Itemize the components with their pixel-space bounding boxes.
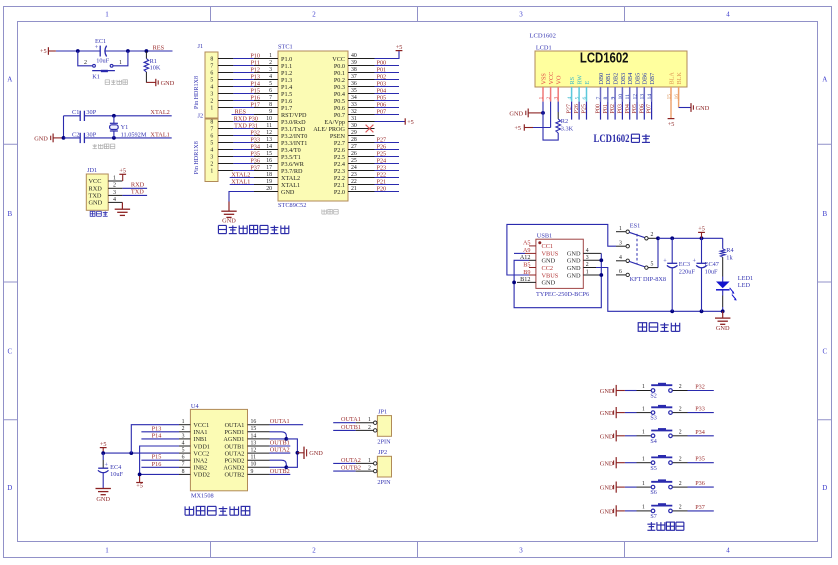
- svg-text:RS: RS: [569, 76, 576, 84]
- svg-text:Pin HDR1X8: Pin HDR1X8: [194, 141, 200, 174]
- svg-text:TXD: TXD: [89, 193, 102, 200]
- svg-text:EC1: EC1: [95, 38, 106, 45]
- svg-text:18: 18: [266, 172, 272, 178]
- svg-text:C2: C2: [72, 131, 79, 138]
- wire/net P36: [233, 157, 260, 164]
- wire TXD: [122, 189, 147, 196]
- usb right stubs: [583, 248, 601, 276]
- wire crystal left: [62, 116, 66, 140]
- svg-text:1: 1: [619, 226, 622, 232]
- svg-text:VCC: VCC: [548, 72, 555, 85]
- svg-text:AGND2: AGND2: [223, 465, 244, 472]
- svg-text:2: 2: [182, 426, 185, 432]
- svg-text:P3.4/T0: P3.4/T0: [281, 147, 301, 154]
- svg-text:P0.5: P0.5: [334, 98, 345, 105]
- svg-text:P25: P25: [582, 104, 588, 113]
- svg-text:GND: GND: [600, 388, 614, 395]
- svg-text:P3.5/T1: P3.5/T1: [281, 154, 301, 161]
- svg-text:3: 3: [519, 11, 523, 19]
- svg-text:XTAL1: XTAL1: [281, 182, 300, 189]
- svg-text:GND: GND: [696, 105, 710, 112]
- wire RXD: [122, 182, 147, 189]
- wire/net P05: [375, 94, 400, 101]
- svg-text:3: 3: [269, 67, 272, 73]
- svg-text:USB1: USB1: [537, 232, 552, 239]
- svg-text:P0.0: P0.0: [334, 63, 345, 70]
- svg-text:2: 2: [312, 11, 316, 19]
- svg-text:CC1: CC1: [542, 243, 554, 250]
- svg-text:EC47: EC47: [705, 261, 719, 268]
- svg-text:P2.2: P2.2: [334, 175, 345, 182]
- wire/net P01: [375, 66, 400, 73]
- wire gnd-S3: [625, 412, 637, 414]
- svg-text:26: 26: [351, 151, 357, 157]
- svg-text:3: 3: [619, 240, 622, 246]
- svg-text:P0.1: P0.1: [334, 70, 345, 77]
- ground (EC4): [96, 488, 111, 503]
- usb pin names right: [567, 251, 581, 280]
- svg-text:TXD P31: TXD P31: [234, 122, 258, 129]
- svg-text:DB7: DB7: [649, 73, 656, 85]
- wire/net P07: [375, 108, 400, 115]
- svg-text:P03: P03: [618, 104, 624, 113]
- svg-text:KFT DIP-8X8: KFT DIP-8X8: [630, 276, 666, 283]
- svg-text:OUTB1: OUTB1: [341, 424, 361, 431]
- wire gnd-S5: [625, 462, 637, 464]
- svg-text:GND: GND: [222, 217, 236, 224]
- svg-text:GND: GND: [281, 189, 295, 196]
- svg-text:VBUS: VBUS: [542, 272, 559, 279]
- svg-text:15: 15: [251, 426, 257, 432]
- svg-text:2PIN: 2PIN: [377, 439, 391, 446]
- svg-text:XTAL2: XTAL2: [150, 109, 169, 116]
- svg-text:1: 1: [368, 417, 371, 423]
- wire usb pin2 to gnd rail: [596, 268, 723, 314]
- svg-text:EA/Vpp: EA/Vpp: [324, 119, 345, 126]
- svg-text:J1: J1: [198, 43, 204, 50]
- svg-text:RST/VPD: RST/VPD: [281, 112, 307, 119]
- svg-text:11: 11: [625, 94, 631, 100]
- svg-text:40: 40: [351, 53, 357, 59]
- connector J1: [194, 43, 234, 118]
- svg-text:220uF: 220uF: [679, 268, 696, 275]
- power +5 (u4 vcc): [100, 441, 107, 453]
- svg-text:MX1508: MX1508: [191, 493, 214, 500]
- svg-text:P0.6: P0.6: [334, 105, 345, 112]
- svg-text:1: 1: [642, 430, 645, 436]
- switch S3: [637, 405, 688, 422]
- usb connector USB1 box: [536, 232, 583, 288]
- svg-text:35: 35: [351, 88, 357, 94]
- led LED1: [716, 275, 753, 313]
- mcu pin names: [281, 56, 346, 196]
- label 单片机: [322, 209, 338, 214]
- svg-text:TXD: TXD: [131, 189, 144, 196]
- svg-text:C: C: [7, 348, 12, 356]
- svg-text:4: 4: [210, 148, 213, 154]
- svg-text:P35: P35: [695, 456, 705, 463]
- svg-text:LCD1602: LCD1602: [594, 132, 630, 145]
- svg-text:CC2: CC2: [542, 265, 554, 272]
- svg-text:P1.4: P1.4: [281, 84, 292, 91]
- svg-text:2: 2: [679, 481, 682, 487]
- svg-text:P2.4: P2.4: [334, 161, 345, 168]
- wire/net OUTA1 (u4): [270, 418, 304, 425]
- svg-text:6: 6: [619, 269, 622, 275]
- svg-text:7: 7: [269, 95, 272, 101]
- svg-text:OUTA1: OUTA1: [341, 416, 361, 423]
- svg-text:P1.2: P1.2: [281, 70, 292, 77]
- wire vbus loop: [507, 224, 616, 275]
- resistor R4: [720, 238, 734, 281]
- resistor R1: [144, 51, 161, 83]
- lcd data wires and net labels: [567, 102, 653, 120]
- wire/net P24: [375, 157, 400, 164]
- wire usb right link: [599, 253, 603, 277]
- connector JP2: [333, 449, 391, 486]
- svg-text:P37: P37: [250, 164, 260, 171]
- svg-text:P06: P06: [639, 104, 645, 113]
- power +5 (mcu vcc): [375, 44, 403, 59]
- svg-text:13: 13: [640, 94, 646, 100]
- capacitor EC1: [95, 38, 110, 64]
- svg-text:P1.3: P1.3: [281, 77, 292, 84]
- svg-text:1: 1: [210, 169, 213, 175]
- svg-text:5: 5: [269, 81, 272, 87]
- svg-text:3: 3: [586, 255, 589, 261]
- svg-text:29: 29: [351, 130, 357, 136]
- svg-text:2: 2: [651, 232, 654, 238]
- svg-text:7: 7: [210, 64, 213, 70]
- wire/net XTAL2: [230, 171, 254, 178]
- svg-text:P13: P13: [152, 425, 162, 432]
- svg-text:P03: P03: [377, 80, 387, 87]
- svg-text:D: D: [7, 484, 12, 492]
- resistor R2: [556, 102, 574, 133]
- ground (JD1): [115, 202, 130, 215]
- wire usb gnd loop: [512, 260, 601, 307]
- svg-text:7: 7: [210, 127, 213, 133]
- svg-text:P0.7: P0.7: [334, 112, 345, 119]
- svg-text:P1.0: P1.0: [281, 56, 292, 63]
- svg-text:P05: P05: [377, 94, 387, 101]
- wire/net RES: [232, 108, 255, 115]
- svg-text:4: 4: [567, 97, 573, 100]
- svg-text:10: 10: [251, 462, 257, 468]
- svg-text:P17: P17: [250, 101, 260, 108]
- svg-text:2: 2: [368, 466, 371, 472]
- ground (R1): [146, 79, 174, 87]
- svg-text:VO: VO: [556, 75, 563, 84]
- title 电源电路: [638, 323, 680, 332]
- ground (S6): [600, 482, 625, 493]
- svg-text:1: 1: [642, 481, 645, 487]
- capacitor EC47: [693, 238, 719, 311]
- svg-text:+5: +5: [40, 48, 47, 55]
- svg-text:OUTA2: OUTA2: [225, 450, 245, 457]
- svg-text:LED: LED: [738, 282, 751, 289]
- svg-text:+5: +5: [407, 119, 414, 126]
- svg-text:P14: P14: [250, 80, 260, 87]
- mcu U? STC1 box: [278, 43, 348, 209]
- svg-text:16: 16: [266, 158, 272, 164]
- svg-text:P00: P00: [377, 59, 387, 66]
- svg-text:4: 4: [619, 255, 622, 261]
- svg-text:P34: P34: [250, 143, 260, 150]
- wire XTAL2: [84, 114, 171, 118]
- wire/net P26: [375, 143, 400, 150]
- svg-text:P26: P26: [574, 104, 580, 113]
- svg-text:4: 4: [182, 440, 185, 446]
- wire lcd vcc: [533, 102, 551, 128]
- svg-text:P33: P33: [250, 136, 260, 143]
- svg-text:28: 28: [351, 137, 357, 143]
- svg-text:OUTB1: OUTB1: [270, 439, 290, 446]
- svg-text:OUTA2: OUTA2: [270, 447, 290, 454]
- wire pgnd2-agnd2: [270, 451, 300, 469]
- svg-text:C1: C1: [72, 109, 79, 116]
- svg-text:31: 31: [351, 116, 357, 122]
- power +5 (power rail): [698, 226, 705, 239]
- svg-text:1: 1: [642, 505, 645, 511]
- svg-text:DB4: DB4: [627, 73, 634, 85]
- svg-text:VDD1: VDD1: [193, 443, 210, 450]
- svg-text:P07: P07: [647, 104, 653, 113]
- svg-text:OUTA1: OUTA1: [225, 422, 245, 429]
- svg-text:P01: P01: [377, 66, 387, 73]
- svg-text:P13: P13: [250, 73, 260, 80]
- wire/net P11: [233, 59, 260, 66]
- wire u4 vcc rail: [101, 425, 179, 455]
- svg-text:JP2: JP2: [378, 449, 387, 456]
- svg-text:P2.7: P2.7: [334, 140, 345, 147]
- svg-text:5: 5: [210, 141, 213, 147]
- wire/net P37: [233, 164, 260, 171]
- title 直流电机驱动: [185, 506, 250, 515]
- svg-text:GND: GND: [309, 450, 323, 457]
- svg-text:8: 8: [182, 469, 185, 475]
- svg-text:10uF: 10uF: [96, 58, 109, 65]
- svg-text:2: 2: [269, 60, 272, 66]
- svg-text:2: 2: [679, 406, 682, 412]
- svg-text:PSEN: PSEN: [330, 133, 346, 140]
- svg-text:6: 6: [210, 134, 213, 140]
- svg-text:1: 1: [642, 456, 645, 462]
- svg-text:8: 8: [269, 102, 272, 108]
- svg-text:S5: S5: [650, 466, 656, 472]
- svg-text:GND: GND: [542, 280, 556, 287]
- wire +5 rail (power): [658, 236, 723, 240]
- svg-text:8: 8: [210, 57, 213, 63]
- svg-text:P0.2: P0.2: [334, 77, 345, 84]
- svg-text:2: 2: [586, 262, 589, 268]
- svg-text:VDD2: VDD2: [193, 472, 210, 479]
- svg-text:P27: P27: [567, 104, 573, 113]
- switch S6: [637, 479, 688, 496]
- svg-text:P23: P23: [377, 164, 387, 171]
- svg-text:VCC2: VCC2: [193, 450, 209, 457]
- ground (S7): [600, 505, 625, 516]
- wire/net RXD P30: [233, 115, 258, 122]
- svg-text:30P: 30P: [86, 131, 96, 138]
- svg-text:+5: +5: [119, 168, 126, 175]
- svg-text:10uF: 10uF: [705, 268, 718, 275]
- svg-text:P24: P24: [377, 157, 387, 164]
- svg-text:DB5: DB5: [634, 73, 641, 85]
- svg-text:A: A: [7, 76, 12, 84]
- ground (S5): [600, 457, 625, 468]
- u4 pin names: [193, 422, 244, 479]
- svg-text:P34: P34: [695, 429, 705, 436]
- svg-text:B: B: [7, 210, 12, 218]
- ic U4 box: [190, 403, 247, 500]
- svg-text:P20: P20: [377, 185, 387, 192]
- wire/net TXD P31: [233, 122, 258, 129]
- svg-text:ALE/ PROG: ALE/ PROG: [313, 126, 345, 133]
- svg-text:P27: P27: [377, 136, 387, 143]
- wire u4 vdd rail: [138, 446, 179, 476]
- wire gnd-S6: [625, 486, 637, 488]
- wire/net P35: [688, 456, 714, 463]
- svg-text:36: 36: [351, 81, 357, 87]
- svg-text:12: 12: [266, 130, 272, 136]
- power +5 (lcd): [514, 124, 533, 132]
- svg-text:1: 1: [538, 97, 544, 100]
- svg-text:P02: P02: [377, 73, 387, 80]
- lcd LCD1 designator: [536, 44, 552, 51]
- svg-text:2: 2: [546, 97, 552, 100]
- svg-text:+: +: [105, 462, 109, 469]
- wire/net P00: [375, 59, 400, 66]
- svg-text:3: 3: [210, 155, 213, 161]
- svg-text:24: 24: [351, 165, 357, 171]
- wire/net P03: [375, 80, 400, 87]
- svg-text:1: 1: [105, 11, 109, 19]
- svg-text:3.3K: 3.3K: [561, 126, 574, 133]
- svg-text:GND: GND: [89, 200, 103, 207]
- svg-text:11: 11: [251, 455, 257, 461]
- net label RES: [153, 45, 165, 52]
- svg-text:13: 13: [266, 137, 272, 143]
- capacitor EC4: [98, 453, 124, 488]
- svg-text:JD1: JD1: [87, 167, 97, 174]
- svg-text:+5: +5: [514, 125, 521, 132]
- svg-text:P16: P16: [250, 94, 260, 101]
- pins JD1: [108, 175, 122, 202]
- svg-text:P02: P02: [610, 104, 616, 113]
- connector JD1: [86, 167, 108, 210]
- svg-text:8: 8: [210, 120, 213, 126]
- svg-text:9: 9: [611, 97, 617, 100]
- svg-text:B: B: [822, 210, 827, 218]
- svg-text:STC89C52: STC89C52: [278, 202, 306, 209]
- svg-text:20: 20: [266, 186, 272, 192]
- ground (lcd vss): [509, 109, 544, 118]
- power +5 (JD1): [119, 168, 126, 182]
- switch S4: [637, 428, 688, 445]
- svg-text:21: 21: [351, 186, 357, 192]
- svg-text:P11: P11: [251, 59, 260, 66]
- no-erc marker pin30: [366, 125, 374, 133]
- wire/net P36: [688, 480, 714, 487]
- svg-text:P2.3: P2.3: [334, 168, 345, 175]
- switch S5: [637, 455, 688, 472]
- wire/net P13: [141, 425, 179, 432]
- svg-text:P16: P16: [152, 461, 162, 468]
- svg-text:16: 16: [674, 94, 680, 100]
- svg-text:P37: P37: [695, 504, 705, 511]
- svg-text:37: 37: [351, 74, 357, 80]
- svg-text:P2.5: P2.5: [334, 154, 345, 161]
- wire/net P33: [688, 406, 714, 413]
- lcd pin stubs and numbers: [538, 87, 680, 102]
- svg-text:P3.7/RD: P3.7/RD: [281, 168, 303, 175]
- wire es1 link 2-5: [656, 236, 660, 267]
- mcu pin stubs: [254, 53, 375, 192]
- svg-text:10: 10: [618, 94, 624, 100]
- svg-text:P15: P15: [250, 87, 260, 94]
- svg-text:1: 1: [182, 419, 185, 425]
- svg-text:P36: P36: [695, 480, 705, 487]
- svg-text:17: 17: [266, 165, 272, 171]
- lcd pin names: [540, 72, 683, 85]
- wire/net P22: [375, 171, 400, 178]
- svg-text:4: 4: [269, 74, 272, 80]
- svg-text:RES: RES: [153, 45, 165, 52]
- svg-text:4: 4: [210, 85, 213, 91]
- capacitor C2: [64, 131, 97, 143]
- svg-text:K1: K1: [92, 73, 100, 80]
- svg-text:DB3: DB3: [620, 73, 627, 85]
- svg-text:38: 38: [351, 67, 357, 73]
- svg-text:1: 1: [210, 106, 213, 112]
- svg-text:S6: S6: [650, 490, 656, 496]
- wire/net P15: [233, 87, 260, 94]
- svg-text:P05: P05: [632, 104, 638, 113]
- label 下载口: [90, 211, 107, 216]
- svg-text:XTAL2: XTAL2: [281, 175, 300, 182]
- svg-text:P0.3: P0.3: [334, 84, 345, 91]
- usb pin names left: [542, 243, 559, 287]
- wire gnd-S2: [625, 390, 637, 392]
- svg-text:LED1: LED1: [738, 275, 753, 282]
- wire reset rail: [56, 49, 173, 53]
- svg-text:INA2: INA2: [193, 458, 207, 465]
- svg-text:33: 33: [351, 102, 357, 108]
- svg-text:R4: R4: [726, 247, 734, 254]
- power +5 (lcd backlight): [668, 102, 675, 128]
- svg-text:RES: RES: [235, 108, 247, 115]
- wire XTAL1: [84, 136, 171, 140]
- switch S2: [637, 383, 688, 400]
- svg-text:32: 32: [351, 109, 357, 115]
- svg-text:RXD P30: RXD P30: [234, 115, 258, 122]
- svg-text:GND: GND: [542, 258, 556, 265]
- svg-text:1: 1: [105, 546, 109, 554]
- svg-text:P32: P32: [250, 129, 260, 136]
- ground (S2): [600, 385, 625, 396]
- wire/net OUTA2 (u4): [270, 447, 291, 454]
- svg-text:GND: GND: [567, 265, 581, 272]
- svg-text:DB2: DB2: [613, 73, 620, 85]
- svg-text:3: 3: [210, 92, 213, 98]
- svg-text:23: 23: [351, 172, 357, 178]
- svg-text:OUTB2: OUTB2: [341, 465, 361, 472]
- svg-text:INB1: INB1: [193, 436, 207, 443]
- svg-text:1: 1: [368, 458, 371, 464]
- power +5 (EA/Vpp): [375, 118, 414, 126]
- svg-text:P3.6/WR: P3.6/WR: [281, 161, 305, 168]
